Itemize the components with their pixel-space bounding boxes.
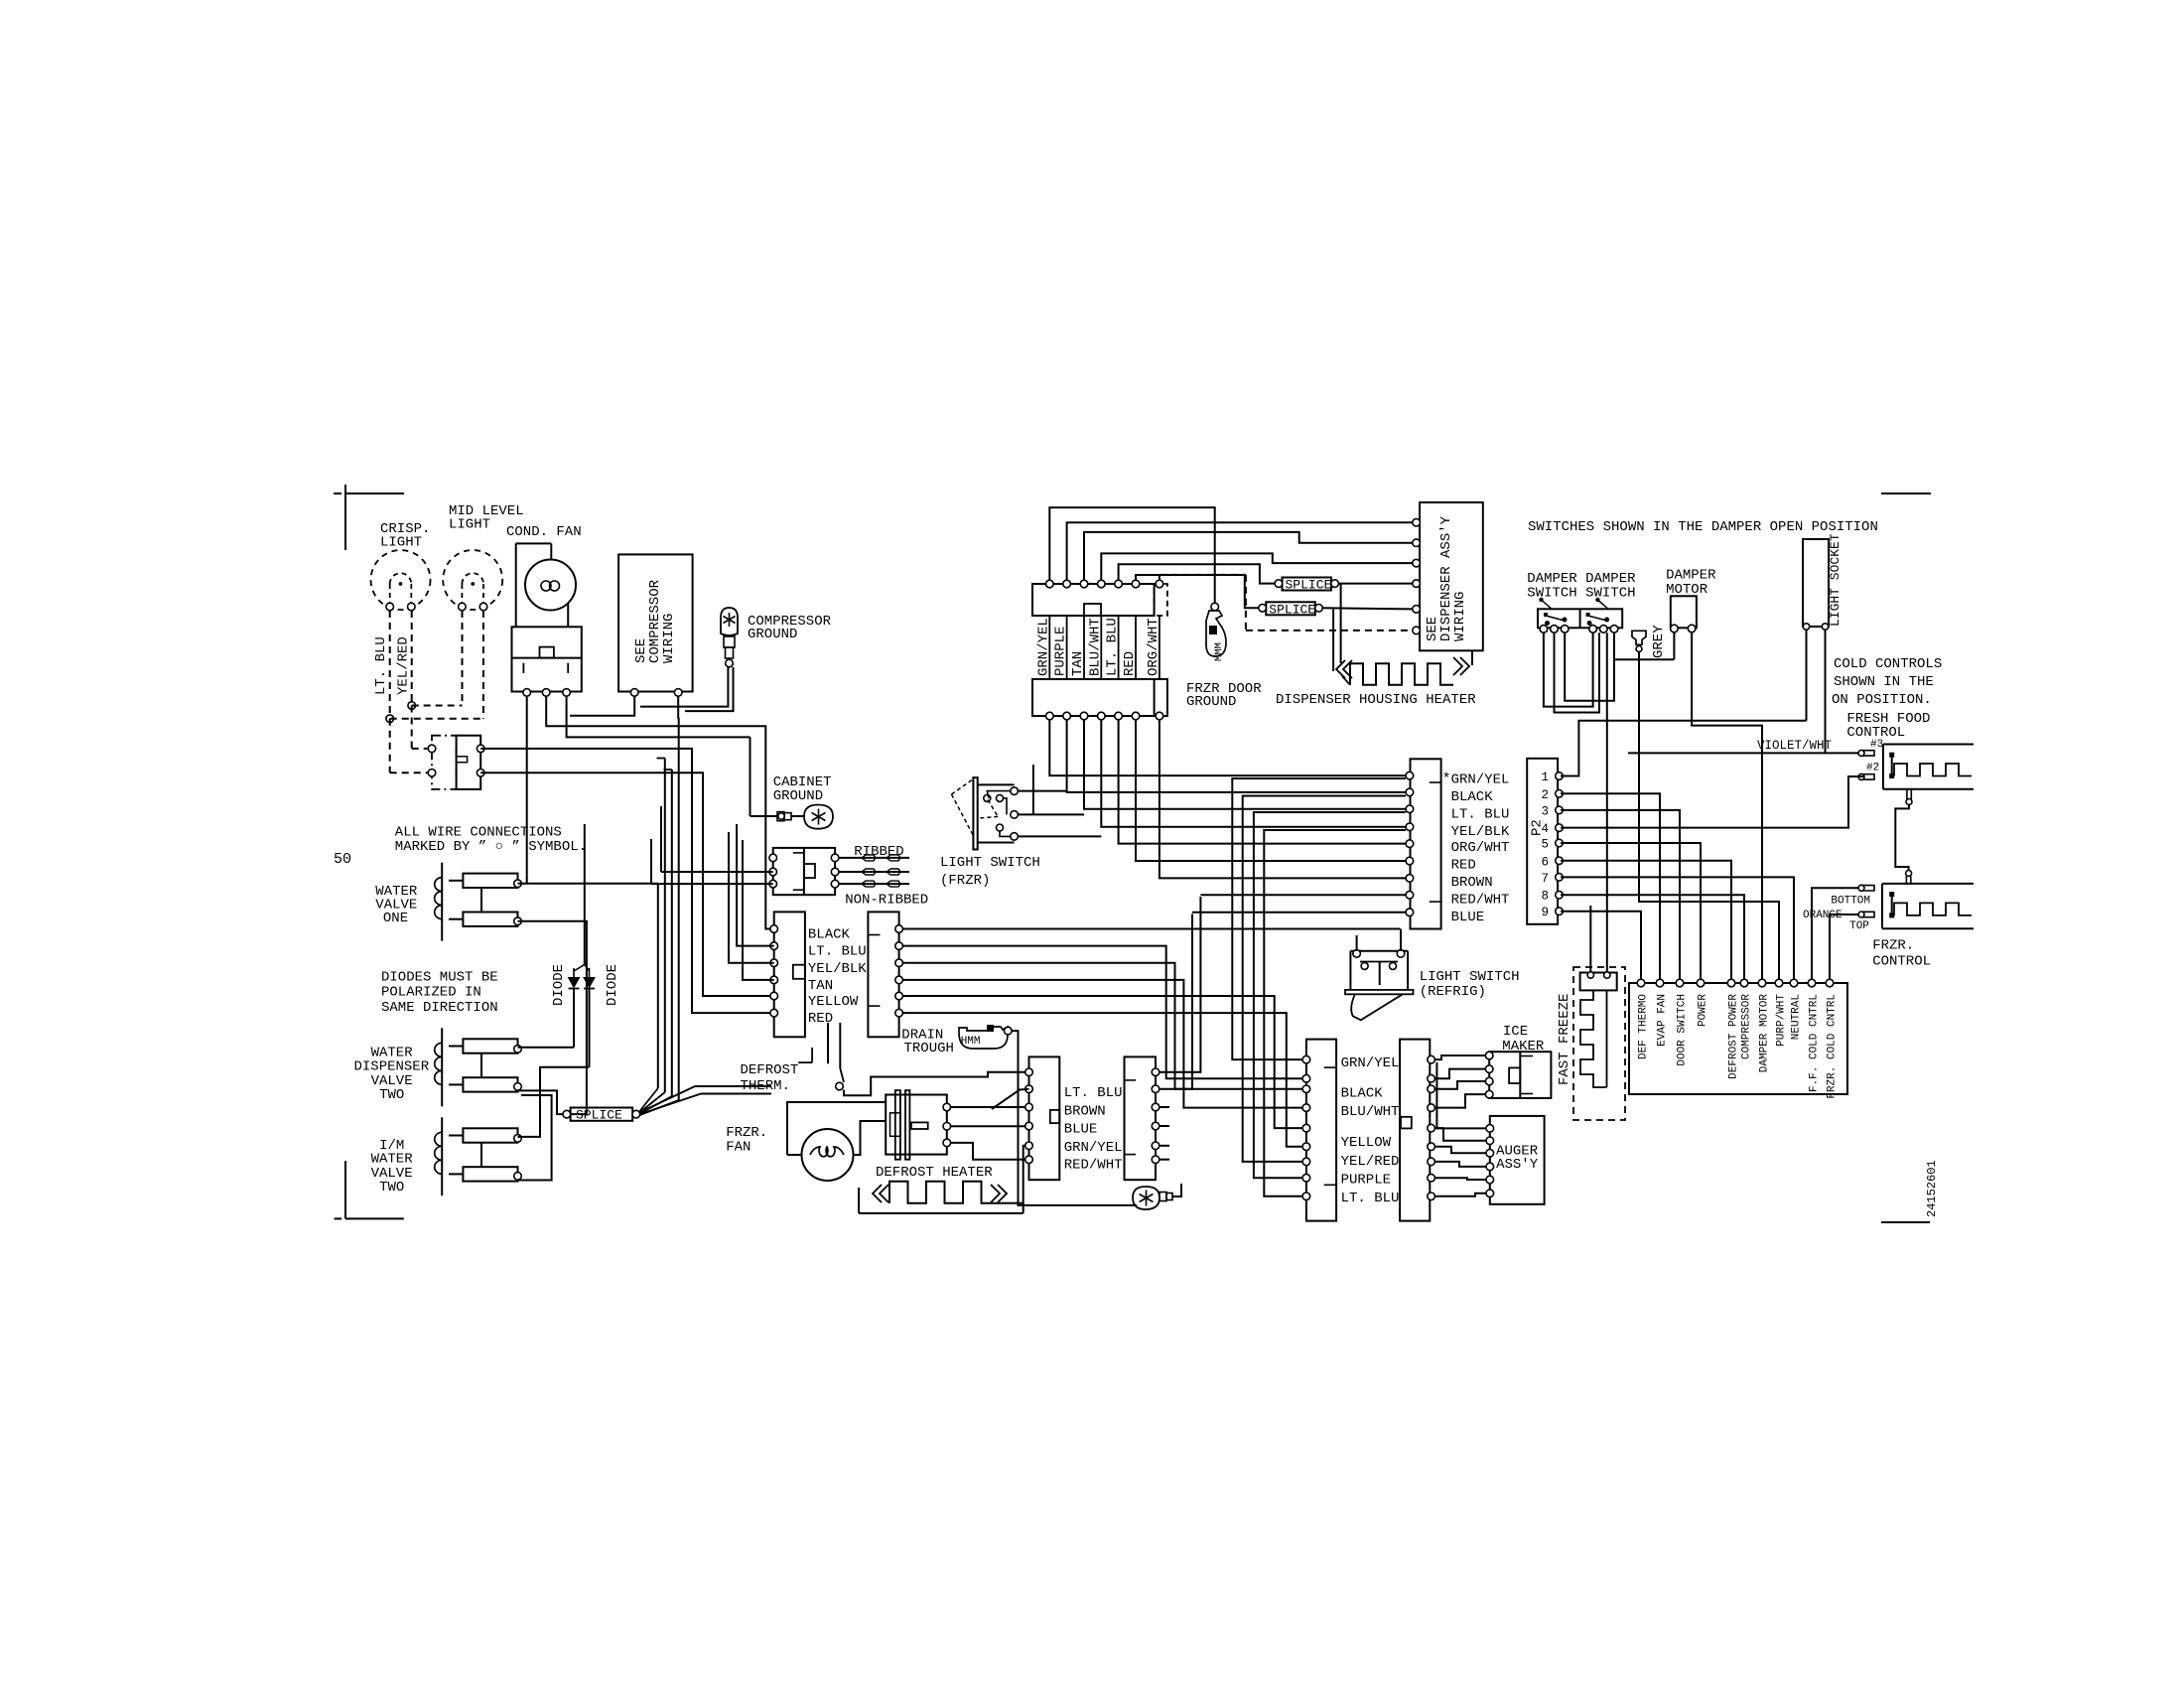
svg-text:SPLICE: SPLICE bbox=[1286, 578, 1332, 593]
svg-text:DIODES MUST BE: DIODES MUST BE bbox=[381, 970, 498, 986]
svg-text:THERM.: THERM. bbox=[741, 1078, 790, 1094]
svg-text:DEFROST HEATER: DEFROST HEATER bbox=[876, 1165, 993, 1181]
svg-text:TOP: TOP bbox=[1849, 920, 1869, 932]
svg-text:TAN: TAN bbox=[808, 978, 833, 994]
svg-text:ORG/WHT: ORG/WHT bbox=[1451, 840, 1510, 856]
svg-text:GRN/YEL: GRN/YEL bbox=[1064, 1140, 1123, 1156]
svg-text:LIGHT: LIGHT bbox=[380, 535, 422, 551]
svg-text:RED: RED bbox=[808, 1011, 833, 1027]
svg-text:YELLOW: YELLOW bbox=[1341, 1135, 1392, 1151]
svg-text:5: 5 bbox=[1541, 838, 1549, 852]
svg-text:DAMPER MOTOR: DAMPER MOTOR bbox=[1759, 994, 1771, 1073]
svg-text:BLUE: BLUE bbox=[1451, 910, 1485, 925]
svg-text:4: 4 bbox=[1541, 822, 1549, 836]
svg-text:PURPLE: PURPLE bbox=[1053, 627, 1069, 676]
svg-text:FRZR. COLD CNTRL: FRZR. COLD CNTRL bbox=[1827, 994, 1839, 1099]
svg-text:#3: #3 bbox=[1870, 739, 1883, 751]
svg-text:TROUGH: TROUGH bbox=[904, 1041, 954, 1056]
svg-text:BLU/WHT: BLU/WHT bbox=[1087, 618, 1103, 676]
svg-text:ON POSITION.: ON POSITION. bbox=[1832, 692, 1932, 708]
svg-text:MARKED BY ” ○ ” SYMBOL.: MARKED BY ” ○ ” SYMBOL. bbox=[395, 839, 587, 855]
svg-text:DIODE: DIODE bbox=[551, 964, 567, 1006]
svg-text:3: 3 bbox=[1541, 804, 1549, 818]
svg-text:RED/WHT: RED/WHT bbox=[1064, 1158, 1123, 1174]
svg-text:LT. BLU: LT. BLU bbox=[1105, 618, 1121, 676]
svg-text:VIOLET/WHT: VIOLET/WHT bbox=[1757, 739, 1833, 753]
svg-text:1: 1 bbox=[1541, 771, 1549, 784]
svg-text:GROUND: GROUND bbox=[1186, 694, 1236, 710]
svg-text:GREY: GREY bbox=[1651, 625, 1667, 658]
svg-text:POLARIZED IN: POLARIZED IN bbox=[381, 985, 481, 1001]
svg-text:BOTTOM: BOTTOM bbox=[1831, 896, 1870, 908]
svg-text:DISPENSER HOUSING HEATER: DISPENSER HOUSING HEATER bbox=[1276, 692, 1476, 708]
svg-text:2: 2 bbox=[1541, 788, 1549, 802]
svg-text:BLACK: BLACK bbox=[1451, 789, 1494, 805]
svg-text:SHOWN IN THE: SHOWN IN THE bbox=[1834, 674, 1934, 690]
svg-text:DEFROST POWER: DEFROST POWER bbox=[1728, 994, 1740, 1079]
svg-text:SWITCH SWITCH: SWITCH SWITCH bbox=[1527, 586, 1635, 602]
svg-text:YEL/RED: YEL/RED bbox=[396, 636, 412, 695]
svg-text:LT. BLU: LT. BLU bbox=[373, 636, 389, 695]
svg-text:DIODE: DIODE bbox=[605, 964, 620, 1006]
svg-text:RED/WHT: RED/WHT bbox=[1451, 892, 1510, 908]
svg-text:ASS'Y: ASS'Y bbox=[1496, 1157, 1539, 1173]
svg-text:FAST FREEZE: FAST FREEZE bbox=[1557, 994, 1572, 1085]
svg-text:DOOR SWITCH: DOOR SWITCH bbox=[1677, 994, 1689, 1066]
svg-text:YELLOW: YELLOW bbox=[808, 994, 859, 1010]
svg-text:RED: RED bbox=[1451, 858, 1476, 874]
svg-text:ORG/WHT: ORG/WHT bbox=[1146, 618, 1161, 676]
svg-text:#2: #2 bbox=[1866, 763, 1879, 774]
svg-text:LIGHT SOCKET: LIGHT SOCKET bbox=[1828, 533, 1843, 627]
svg-text:ORANGE: ORANGE bbox=[1803, 910, 1843, 921]
svg-text:GROUND: GROUND bbox=[773, 788, 823, 804]
svg-text:GRN/YEL: GRN/YEL bbox=[1035, 618, 1051, 676]
svg-text:24152601: 24152601 bbox=[1925, 1160, 1939, 1217]
svg-text:DEFROST: DEFROST bbox=[741, 1062, 799, 1078]
svg-text:8: 8 bbox=[1541, 890, 1549, 904]
svg-text:(FRZR): (FRZR) bbox=[940, 873, 990, 889]
svg-text:6: 6 bbox=[1541, 855, 1549, 869]
svg-text:LT. BLU: LT. BLU bbox=[1064, 1085, 1123, 1101]
svg-text:LIGHT: LIGHT bbox=[449, 517, 490, 533]
svg-text:MMM: MMM bbox=[1213, 642, 1225, 661]
svg-text:NEUTRAL: NEUTRAL bbox=[1791, 994, 1803, 1040]
svg-text:9: 9 bbox=[1541, 906, 1549, 919]
svg-text:(REFRIG): (REFRIG) bbox=[1420, 984, 1486, 1000]
svg-text:LT. BLU: LT. BLU bbox=[1451, 806, 1510, 822]
svg-text:SAME DIRECTION: SAME DIRECTION bbox=[381, 1000, 498, 1016]
svg-text:BLACK: BLACK bbox=[1341, 1085, 1384, 1101]
svg-text:BROWN: BROWN bbox=[1064, 1103, 1106, 1119]
svg-text:YEL/RED: YEL/RED bbox=[1341, 1154, 1400, 1170]
svg-text:*: * bbox=[1442, 772, 1451, 788]
svg-text:DEF THERMO: DEF THERMO bbox=[1638, 994, 1650, 1059]
svg-text:EVAP FAN: EVAP FAN bbox=[1657, 994, 1669, 1047]
svg-text:RED: RED bbox=[1122, 651, 1138, 676]
svg-text:SPLICE: SPLICE bbox=[576, 1108, 622, 1123]
svg-text:FAN: FAN bbox=[726, 1140, 751, 1156]
svg-text:YEL/BLK: YEL/BLK bbox=[808, 961, 867, 977]
svg-text:BLUE: BLUE bbox=[1064, 1122, 1098, 1138]
svg-text:ICE: ICE bbox=[1503, 1024, 1528, 1040]
svg-text:50: 50 bbox=[334, 851, 351, 868]
svg-text:TAN: TAN bbox=[1070, 651, 1086, 676]
svg-text:POWER: POWER bbox=[1698, 994, 1709, 1027]
svg-text:BROWN: BROWN bbox=[1451, 875, 1493, 891]
svg-text:7: 7 bbox=[1541, 872, 1549, 886]
svg-text:TWO: TWO bbox=[379, 1180, 404, 1196]
svg-text:SPLICE: SPLICE bbox=[1269, 602, 1315, 617]
svg-text:RIBBED: RIBBED bbox=[854, 844, 903, 860]
svg-text:ONE: ONE bbox=[383, 911, 408, 926]
svg-text:SWITCHES SHOWN IN THE DAMPER O: SWITCHES SHOWN IN THE DAMPER OPEN POSITI… bbox=[1528, 519, 1878, 535]
svg-text:TWO: TWO bbox=[379, 1087, 404, 1103]
svg-text:COMPRESSOR: COMPRESSOR bbox=[1741, 994, 1753, 1059]
svg-text:GROUND: GROUND bbox=[748, 627, 797, 642]
svg-text:F.F. COLD CNTRL: F.F. COLD CNTRL bbox=[1809, 994, 1821, 1092]
svg-text:PURPLE: PURPLE bbox=[1341, 1172, 1391, 1188]
svg-text:COND. FAN: COND. FAN bbox=[506, 524, 582, 540]
svg-text:CONTROL: CONTROL bbox=[1872, 954, 1931, 970]
svg-text:YEL/BLK: YEL/BLK bbox=[1451, 824, 1510, 840]
svg-text:GRN/YEL: GRN/YEL bbox=[1451, 773, 1510, 788]
svg-text:WIRING: WIRING bbox=[1452, 592, 1468, 641]
svg-text:LT. BLU: LT. BLU bbox=[808, 944, 867, 960]
svg-text:BLU/WHT: BLU/WHT bbox=[1341, 1104, 1400, 1120]
svg-text:WIRING: WIRING bbox=[661, 614, 677, 663]
svg-text:GRN/YEL: GRN/YEL bbox=[1341, 1055, 1400, 1071]
svg-text:LIGHT SWITCH: LIGHT SWITCH bbox=[1420, 969, 1520, 985]
svg-text:LIGHT SWITCH: LIGHT SWITCH bbox=[940, 855, 1040, 871]
svg-text:FRZR.: FRZR. bbox=[1872, 938, 1914, 954]
svg-text:HMM: HMM bbox=[961, 1036, 981, 1048]
svg-text:BLACK: BLACK bbox=[808, 927, 851, 943]
svg-text:NON-RIBBED: NON-RIBBED bbox=[845, 893, 928, 909]
svg-text:COLD CONTROLS: COLD CONTROLS bbox=[1834, 656, 1942, 672]
svg-text:LT. BLU: LT. BLU bbox=[1341, 1191, 1400, 1206]
svg-text:PURP/WHT: PURP/WHT bbox=[1776, 994, 1788, 1047]
